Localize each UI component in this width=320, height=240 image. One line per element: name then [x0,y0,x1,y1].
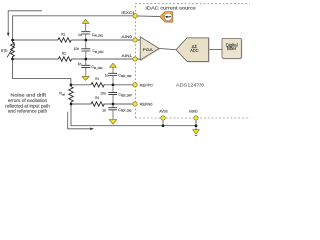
PGA amplifier triangle [140,37,159,60]
pin REFP0 [133,83,137,87]
svg-text:R1: R1 [61,33,65,37]
svg-text:errors of excitation: errors of excitation [8,98,48,103]
annotation arrow top-left (current path into RTD) [8,11,42,34]
junction node RTD top [11,39,14,42]
pin AGND [194,116,198,120]
resistor RTD (variable, with arrow) [11,40,15,59]
wire AGND stub [195,118,197,130]
svg-text:REFN0: REFN0 [140,101,154,106]
svg-text:1n: 1n [102,108,106,112]
svg-text:R2: R2 [62,52,66,56]
note text: noise and drift errors [5,93,50,114]
yellow noise arrow down (input CM2) [82,76,89,80]
wire RTD bottom to Rref top [13,59,71,85]
junction node REFP0/cap [112,83,115,86]
svg-text:IEXC1: IEXC1 [121,10,135,15]
svg-text:filter: filter [227,46,237,51]
yellow noise arrow up (ref CM1) [110,63,117,67]
capacitor C_REF_CM2 (1n) [112,104,114,108]
junction node Rref top [70,83,73,86]
capacitor C_IN_CM1 (1n) [85,34,87,40]
svg-text:R4: R4 [95,96,99,100]
svg-text:10n: 10n [74,47,80,51]
resistor Rref (vertical) [69,85,73,104]
resistor R3 [91,83,104,87]
svg-text:AVSS: AVSS [159,108,168,113]
wire AVSS stub [162,118,164,126]
svg-text:AIN1: AIN1 [122,54,133,58]
wire IEXC1 to RTD top [13,16,135,40]
svg-text:IDAC current source: IDAC current source [145,6,196,11]
yellow noise arrow up (input CM1) [83,19,89,23]
digital filter block [222,38,241,58]
junction node AVSS/ground rail [162,124,165,127]
svg-text:PGA: PGA [143,47,154,52]
junction node AGND/ground rail [195,124,198,127]
capacitor C_IN_CM2 (1n) [85,59,87,65]
junction node RTD bottom [11,58,14,61]
svg-text:AGND: AGND [189,108,198,113]
pin IEXC1 [133,14,137,18]
capacitor C_IN_DIFF (10n) [85,40,87,49]
wire ADC to digital filter [209,48,222,50]
junction node AIN1/cap [84,58,87,61]
chip boundary dashed box (ADS1247/8) [136,4,251,118]
resistor R4 [91,102,104,106]
svg-text:and reference path: and reference path [8,109,48,114]
wire Rref bottom to ground rail [71,104,196,126]
svg-text:ADS1247/8: ADS1247/8 [176,83,205,88]
junction node Rref bottom [70,103,73,106]
wire AIN1 line [13,58,59,60]
pin AIN0 [133,38,137,42]
svg-text:1n: 1n [105,73,109,77]
svg-text:1n: 1n [78,33,82,37]
wire PGA to ADC [159,48,176,49]
svg-text:RTD: RTD [1,49,8,53]
junction node AIN0/cap [84,39,87,42]
resistor R1 [58,38,71,42]
resistor R2 [58,57,71,61]
ground symbol AGND (yellow arrow) [193,130,200,135]
svg-text:ADC: ADC [190,48,198,53]
IDAC current source symbol [160,12,172,22]
pin AIN1 [133,57,137,61]
pin AVSS [161,116,165,120]
svg-text:10n: 10n [100,92,106,96]
wire AIN0 line [13,39,58,41]
svg-text:REFP0: REFP0 [140,82,154,87]
svg-text:AIN0: AIN0 [122,35,133,39]
wire REFP0 line [71,84,91,86]
svg-text:R3: R3 [95,77,99,81]
svg-text:reflected at input path: reflected at input path [5,103,50,108]
capacitor C_REF_DIFF (10n) [112,85,114,93]
yellow noise arrow down (ref CM2) [109,120,116,125]
svg-text:1n: 1n [78,62,82,66]
annotation arrow bottom-left (current path to ground) [68,112,92,129]
capacitor C_REF_CM1 (1n) [112,67,114,73]
wire REFN0 line [71,103,91,105]
svg-text:Noise and drift: Noise and drift [11,93,47,98]
wire IEXC1 pin to IDAC [135,15,160,18]
pin REFN0 [133,102,137,106]
junction node REFN0/cap [112,103,115,106]
delta-sigma ADC block [176,38,209,62]
